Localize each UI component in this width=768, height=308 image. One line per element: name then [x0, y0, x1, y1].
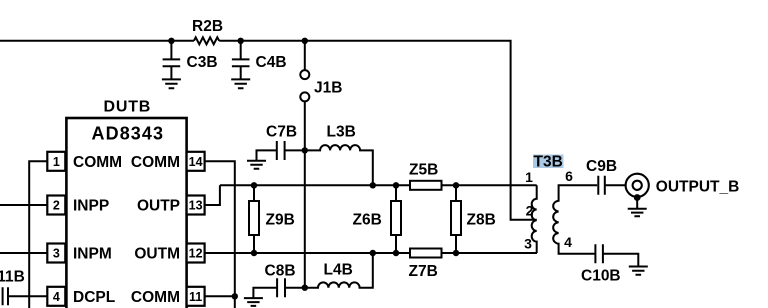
wire pin4 lead from capacitor C11B — [8, 295, 47, 297]
svg-text:1: 1 — [53, 155, 60, 169]
wire C4B stem — [240, 41, 242, 60]
wire OUTM bottom row — [205, 252, 537, 254]
junction node Z8B top — [453, 182, 459, 188]
wire C8B to J1B node — [285, 287, 305, 289]
wire top rail right segment + descent + tap to T3B pin 2 — [219, 41, 537, 220]
svg-text:C11B: C11B — [0, 269, 25, 286]
wire top rail left segment — [0, 40, 194, 42]
capacitor C10B plates — [595, 244, 603, 263]
wire pin3 lead from left edge — [0, 252, 47, 254]
connector J1B lower circle — [300, 92, 309, 101]
svg-text:14: 14 — [189, 155, 203, 169]
wire output connector ground stem — [636, 198, 638, 209]
wire C3B stem — [170, 41, 172, 60]
pin box 4 — [47, 287, 65, 306]
svg-text:L4B: L4B — [324, 262, 353, 279]
transformer T3B secondary winding with pin6 and pin4 leads — [553, 185, 597, 254]
junction node L3B top row — [370, 182, 376, 188]
pin box 2 — [47, 196, 65, 215]
svg-text:AD8343: AD8343 — [92, 124, 165, 144]
wire C10B to ground stub — [603, 254, 638, 267]
svg-text:C3B: C3B — [187, 54, 218, 71]
svg-text:OUTPUT_B: OUTPUT_B — [656, 178, 740, 195]
svg-text:OUTM: OUTM — [134, 246, 180, 263]
impedance Z9B body — [249, 201, 259, 235]
svg-text:C4B: C4B — [256, 54, 287, 71]
junction node Z8B bottom — [453, 250, 459, 256]
transformer T3B primary winding — [532, 185, 537, 253]
svg-text:COMM: COMM — [131, 289, 180, 306]
capacitor C7B plates — [277, 141, 285, 160]
svg-text:INPP: INPP — [73, 198, 109, 215]
output connector ground dot — [634, 194, 641, 201]
ground under C3B — [162, 79, 181, 88]
svg-text:Z9B: Z9B — [266, 212, 295, 229]
svg-text:OUTP: OUTP — [137, 198, 180, 215]
ground for C10B — [629, 267, 648, 275]
inductor L4B — [305, 253, 373, 288]
capacitor C4B plates — [232, 59, 250, 66]
output connector OUTPUT_B outer circle — [626, 174, 649, 197]
ground for C7B / pin14 — [247, 161, 266, 169]
svg-text:DCPL: DCPL — [73, 289, 115, 306]
junction node Z6B bottom — [393, 250, 399, 256]
svg-text:C10B: C10B — [581, 268, 621, 285]
ground under output connector — [628, 209, 647, 216]
svg-text:Z8B: Z8B — [467, 212, 496, 229]
svg-text:3: 3 — [524, 236, 532, 252]
svg-text:4: 4 — [53, 290, 60, 304]
junction node L4B bottom row — [370, 250, 376, 256]
wire C8B ground branch — [253, 288, 277, 298]
junction node C7B-L3B — [302, 147, 308, 153]
svg-text:13: 13 — [189, 199, 203, 213]
connector J1B upper circle — [300, 70, 309, 79]
impedance Z8B stems — [455, 185, 457, 253]
inductor L3B — [305, 145, 373, 185]
DUT chip body AD8343 — [66, 118, 186, 308]
ground under C4B — [231, 79, 250, 88]
wire OUTP top row — [220, 184, 537, 186]
svg-text:COMM: COMM — [131, 154, 180, 171]
svg-text:DUTB: DUTB — [104, 99, 152, 116]
pin box 1 — [47, 152, 65, 171]
ground for C8B — [244, 298, 263, 306]
junction node C8B-L4B — [302, 285, 308, 291]
wire C7B ground branch — [257, 150, 277, 160]
wire J1B lower vertical down to C8B node — [304, 101, 306, 287]
svg-text:2: 2 — [53, 199, 60, 213]
svg-text:Z5B: Z5B — [409, 162, 438, 179]
junction node pin11 bus — [232, 293, 238, 299]
capacitor C8B plates — [277, 278, 285, 297]
wire pin11 lead — [205, 295, 235, 297]
pin box 14 — [187, 152, 205, 171]
pin box 3 — [47, 244, 65, 263]
impedance Z8B body — [451, 201, 461, 235]
junction node Z6B top — [393, 182, 399, 188]
capacitor C4B lower stem — [240, 66, 242, 79]
impedance Z7B body — [410, 249, 442, 258]
wire pin14 lead and vertical down — [205, 161, 235, 308]
pin box 11 — [187, 287, 205, 306]
svg-text:1: 1 — [525, 169, 533, 185]
wire pin2 lead from left edge — [0, 204, 47, 206]
impedance Z6B body — [391, 201, 401, 235]
wire pin13 step up to OUTP row — [205, 185, 220, 205]
wire C7B to J1B node — [285, 149, 305, 151]
label T3B highlighted — [533, 155, 564, 169]
impedance Z9B stems — [253, 185, 255, 253]
junction node Z9B top — [251, 182, 257, 188]
capacitor C3B plates — [163, 59, 181, 66]
capacitor C9B plates — [598, 176, 605, 195]
svg-text:C7B: C7B — [266, 124, 297, 141]
svg-text:4: 4 — [564, 234, 572, 250]
svg-text:T3B: T3B — [534, 154, 563, 171]
svg-text:Z6B: Z6B — [353, 212, 382, 229]
impedance Z6B stems — [395, 185, 397, 253]
svg-text:INPM: INPM — [73, 246, 112, 263]
svg-text:J1B: J1B — [314, 80, 342, 97]
svg-text:R2B: R2B — [192, 18, 223, 35]
svg-text:11: 11 — [189, 290, 202, 304]
svg-text:C8B: C8B — [265, 263, 296, 280]
junction node Z9B bottom — [251, 250, 257, 256]
svg-text:L3B: L3B — [327, 124, 356, 141]
junction node rail-J1B — [302, 38, 308, 44]
pin box 12 — [187, 244, 205, 263]
svg-text:Z7B: Z7B — [409, 263, 438, 280]
wire C9B to output connector — [605, 184, 625, 186]
pin box 13 — [187, 196, 205, 215]
output connector inner circle — [633, 181, 642, 190]
wire pin1 lead and left vertical bus — [29, 161, 47, 308]
impedance Z5B body — [410, 181, 442, 190]
svg-text:6: 6 — [565, 168, 573, 184]
svg-text:C9B: C9B — [586, 158, 617, 175]
capacitor C3B lower stem — [170, 66, 172, 79]
capacitor C11B plates (cut off at left edge) — [3, 287, 8, 305]
svg-text:12: 12 — [189, 247, 203, 261]
resistor R2B — [194, 37, 219, 44]
svg-text:3: 3 — [53, 247, 60, 261]
wire J1B drop from rail — [304, 41, 306, 70]
junction node rail-C4B — [238, 38, 244, 44]
junction node rail-C3B — [168, 38, 174, 44]
svg-text:COMM: COMM — [73, 154, 122, 171]
svg-text:2: 2 — [526, 203, 534, 219]
